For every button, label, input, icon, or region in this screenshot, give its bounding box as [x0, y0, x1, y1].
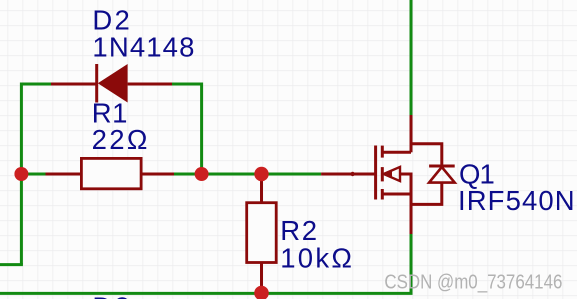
svg-text:CSDN @m0_73764146: CSDN @m0_73764146 [384, 271, 562, 293]
resistor R1 body [81, 158, 141, 188]
wire bottom horizontal [0, 292, 413, 295]
resistor R2 top pin [260, 174, 263, 203]
resistor R2 bottom pin [260, 263, 263, 294]
wire dot to R1 left [21, 173, 47, 176]
junction node diode bypass [195, 167, 209, 181]
junction node R2 top [254, 167, 268, 181]
transistor Q1 bulk arrow head [384, 170, 392, 177]
svg-text:1N4148: 1N4148 [92, 31, 194, 62]
svg-text:IRF540N: IRF540N [458, 185, 575, 216]
wire diode bypass vertical [200, 83, 203, 175]
junction node R2 bottom [254, 286, 269, 299]
svg-text:D3: D3 [92, 292, 129, 299]
transistor Q1 gate pin end bump [350, 172, 354, 176]
transistor Q1 gate plate [374, 146, 377, 200]
transistor Q1 source connect [382, 193, 411, 196]
wire drain vertical from top edge [410, 0, 413, 115]
transistor Q1 bulk arrow outline [384, 167, 400, 181]
resistor R1 left pin [46, 173, 82, 176]
transistor Q1 channel dash bottom [381, 189, 384, 200]
wire R1 right to gate net [173, 173, 321, 176]
resistor R2 body [247, 203, 277, 263]
junction node left [14, 167, 28, 181]
body diode bottom connect [411, 183, 442, 205]
transistor Q1 drain lead [410, 115, 413, 152]
wire diode bypass top horizontal [171, 83, 202, 86]
transistor Q1 gate pin [321, 173, 377, 176]
diode D2 left pin [51, 83, 97, 86]
body diode top connect [411, 144, 442, 166]
body diode triangle [429, 167, 455, 183]
transistor Q1 channel dash top [381, 146, 384, 158]
resistor R1 right pin [141, 173, 174, 176]
svg-text:10kΩ: 10kΩ [280, 242, 352, 273]
wire net top-left horizontal [21, 83, 52, 86]
diode D2 right pin [128, 83, 172, 86]
transistor Q1 channel dash middle [381, 167, 384, 181]
transistor Q1 drain connect [382, 151, 411, 154]
svg-text:R2: R2 [280, 215, 317, 246]
wire net left vertical [20, 83, 23, 265]
svg-text:22Ω: 22Ω [92, 124, 148, 155]
body diode cathode bar [429, 165, 455, 168]
transistor Q1 body line with source lead [400, 174, 411, 234]
diode D2 cathode bar [95, 64, 98, 103]
wire source vertical down [410, 234, 413, 294]
wire net left-bottom horizontal to edge [0, 263, 23, 266]
diode D2 triangle [98, 64, 128, 103]
